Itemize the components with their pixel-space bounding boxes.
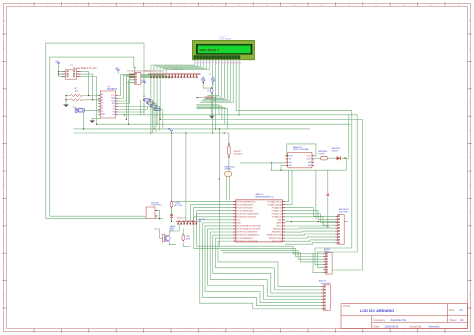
wire LCD pin10 descent xyxy=(206,64,221,97)
wire bus row 5 xyxy=(74,128,311,130)
node RP1 junction xyxy=(203,82,204,83)
svg-text:GN1: GN1 xyxy=(288,162,292,164)
wire U1 RXD xyxy=(191,205,234,222)
power flag 5V on bus xyxy=(168,129,173,133)
connector P2 header female 1x4 xyxy=(129,72,141,84)
svg-text:GN4: GN4 xyxy=(308,165,312,167)
connector J-LCD label xyxy=(144,68,184,72)
wire U1 PD4 xyxy=(194,217,233,249)
wire RN4 right end xyxy=(161,110,163,129)
svg-text:PC1(ADC1): PC1(ADC1) xyxy=(272,212,282,215)
svg-text:A0: A0 xyxy=(101,93,103,96)
wire crystal to U2 pin6 xyxy=(84,109,100,111)
wire backlight cascade 4 to bus xyxy=(197,109,228,129)
display LCD1 16x2 module xyxy=(192,40,254,59)
svg-text:16: 16 xyxy=(239,62,241,64)
wire RN3 right end xyxy=(158,106,160,130)
svg-text:1: 1 xyxy=(196,62,197,64)
svg-text:G: G xyxy=(469,185,471,187)
wire ICSP run 4 xyxy=(223,253,323,262)
wire P2 pin3 down xyxy=(128,80,130,124)
wire U1 AVCC xyxy=(285,225,328,227)
wire U1 ADC1 xyxy=(285,214,335,223)
node I2C bus entry xyxy=(134,67,136,73)
wire R2 right to U2 pin2 xyxy=(82,99,100,101)
resistor R3 label xyxy=(207,90,210,92)
capacitor C-resonator label xyxy=(225,165,235,170)
wire U1 TXD xyxy=(194,208,233,222)
wire U2 GND to ground xyxy=(92,118,100,120)
wire P1 right pin2 xyxy=(81,74,93,100)
svg-text:PC4(ADC4/SDA): PC4(ADC4/SDA) xyxy=(267,203,281,206)
svg-text:(PCINT16/RXD)PD0: (PCINT16/RXD)PD0 xyxy=(237,204,254,206)
wire U2 right pin2 to LCD header pin6 xyxy=(118,76,166,99)
wire LCD pin13 descent xyxy=(202,64,231,101)
wire U1 GND-AREF rail xyxy=(285,221,348,223)
wire U3 top loop xyxy=(287,144,316,156)
wire LCD pin2 to header pin2 xyxy=(154,63,198,78)
wire LCD header pin1 down to bus xyxy=(150,78,152,133)
svg-text:PC5(ADC5/SCL): PC5(ADC5/SCL) xyxy=(268,200,282,203)
wire R7 top xyxy=(183,229,190,247)
resistor RN4 xyxy=(153,108,161,110)
wire ICSP run 1 xyxy=(218,246,323,254)
svg-text:16MHZ: 16MHZ xyxy=(225,169,232,171)
wire RP cluster xyxy=(203,84,213,88)
wire U1 ADC0 xyxy=(285,217,335,225)
wire bus row 3 xyxy=(161,120,362,271)
wire J4 pin8 stub xyxy=(313,253,323,273)
connector P2 label xyxy=(128,69,154,72)
svg-text:PB2(SS/OC1B): PB2(SS/OC1B) xyxy=(269,238,282,240)
wire LCD pin16 to bus row2 xyxy=(239,64,240,116)
wire R1 left to vertical xyxy=(66,96,71,105)
wire Q1 collector xyxy=(169,224,179,235)
connector J2 header 1x7 xyxy=(177,221,198,224)
LED D2 xyxy=(170,207,173,221)
power flag +5V above P2 xyxy=(115,68,120,73)
resonator X1 xyxy=(225,171,232,199)
connector J3 header 8-pin xyxy=(322,285,331,311)
wire D1 to right bus xyxy=(340,115,348,170)
svg-text:PC3(ADC3): PC3(ADC3) xyxy=(272,206,282,209)
wire U1 right pin13 to J1 xyxy=(285,237,335,238)
svg-text:VOUT: VOUT xyxy=(306,159,311,161)
svg-text:P5: P5 xyxy=(113,111,115,113)
wire U1 left pin11 staircase to J3 pin4 xyxy=(210,232,321,296)
wire bus stub down 2 xyxy=(218,129,220,246)
wire U1 left pin13 staircase to J3 pin2 xyxy=(215,238,321,290)
svg-text:GND: GND xyxy=(101,114,106,116)
trimmer RP1 label xyxy=(199,74,212,76)
svg-text:SCL: SCL xyxy=(111,100,115,102)
svg-text:A2: A2 xyxy=(101,99,103,102)
svg-text:SMD: SMD xyxy=(186,238,191,240)
wire bus to reset resistor xyxy=(228,133,230,144)
power flag VCC right xyxy=(327,170,329,227)
svg-text:5V-LED: 5V-LED xyxy=(332,150,339,152)
wire U2 right pin5 to resistor RN4 xyxy=(118,107,151,110)
wire LCD pin4 to header pin4 xyxy=(160,63,204,78)
display LCD1 label xyxy=(220,36,232,40)
svg-text:4.7UH: 4.7UH xyxy=(319,153,325,155)
svg-text:(PCINT14/RESET)PC6: (PCINT14/RESET)PC6 xyxy=(237,201,256,203)
svg-text:A1: A1 xyxy=(101,96,103,99)
svg-text:6: 6 xyxy=(210,62,211,64)
connector J4 header 8-pin xyxy=(323,253,332,275)
svg-text:(PCINT22/OC0A/AIN0)PD6: (PCINT22/OC0A/AIN0)PD6 xyxy=(237,234,260,237)
wire loop net A bottom run to reset connector xyxy=(46,218,163,220)
resistor R4 (zigzag) xyxy=(205,96,217,102)
regulator U3 label xyxy=(293,146,309,151)
wire LCD header pin2 down to bus xyxy=(153,78,155,129)
wire P3 to loops xyxy=(158,211,161,220)
wire RN1 right end xyxy=(151,100,153,133)
svg-text:G: G xyxy=(4,185,6,187)
svg-text:VCC+: VCC+ xyxy=(307,156,312,158)
wire U1 right pin12 to J1 xyxy=(285,234,335,235)
svg-text:12: 12 xyxy=(228,62,230,64)
resistor R6 LED series xyxy=(170,201,173,209)
svg-text:4: 4 xyxy=(205,62,206,64)
wire U2 right pin7 to resistor RN2 xyxy=(118,103,144,112)
wire 5V flag to LED resistor xyxy=(171,133,173,200)
title block xyxy=(341,304,468,329)
node LED junction xyxy=(171,221,172,222)
wire bus row 6 xyxy=(74,132,229,134)
resistor R7 label xyxy=(186,236,191,240)
wire U1 INT0 xyxy=(197,211,233,222)
svg-text:AiventGo SG: AiventGo SG xyxy=(391,318,407,322)
wire LCD pin1 to header pin1 xyxy=(151,63,195,78)
wire RN2 right end xyxy=(154,103,156,132)
node D1 cathode junction xyxy=(344,157,346,159)
svg-text:GND: GND xyxy=(237,223,242,225)
wire LCD pin8 to bus row5 xyxy=(215,64,216,130)
connector J3 label xyxy=(319,280,332,286)
mcu U1 ATMEGA328P xyxy=(233,200,285,243)
node header-bus junctions xyxy=(150,119,160,134)
svg-text:J: J xyxy=(469,267,470,269)
wire U1 left pin7 staircase to J3 pin8 xyxy=(200,220,322,309)
ground at R pair xyxy=(63,105,68,108)
op-amp U2 PCF8574 xyxy=(98,91,118,118)
node bus stub junction xyxy=(185,132,186,222)
wire U1 right pin10 to J1 xyxy=(285,227,335,230)
svg-text:GN3: GN3 xyxy=(308,162,312,164)
svg-text:DUPONT-2: DUPONT-2 xyxy=(151,205,162,207)
wire U1 RESET to LED column xyxy=(172,201,234,203)
wire backlight cascade 3 to bus xyxy=(197,107,225,124)
connector J1 header 10-pin xyxy=(336,215,345,245)
wire U1 SDA up xyxy=(285,170,292,204)
node J2 junctions xyxy=(179,221,194,222)
resistor cluster labels xyxy=(143,96,146,98)
svg-text:(PCINT19/OC2B/INT1)PD3: (PCINT19/OC2B/INT1)PD3 xyxy=(237,213,259,215)
wire LCD pin3 to header pin3 xyxy=(157,63,201,78)
svg-text:P4: P4 xyxy=(113,114,115,116)
svg-text:PB4(MISO): PB4(MISO) xyxy=(272,232,282,234)
wire LCD header pin4 down to bus xyxy=(159,78,161,119)
svg-text:6x1M-2.54: 6x1M-2.54 xyxy=(177,218,187,220)
svg-text:P1: P1 xyxy=(101,105,103,107)
resistor RN2 xyxy=(146,102,154,104)
svg-text:14: 14 xyxy=(234,62,236,64)
svg-text:Header-Male-2.54_2x3: Header-Male-2.54_2x3 xyxy=(73,67,97,70)
svg-text:8: 8 xyxy=(216,62,217,64)
wire U2 right pin4 to LCD header pin8 xyxy=(118,77,173,103)
node U3 VOUT junction xyxy=(286,155,287,156)
mcu U1 label xyxy=(256,193,274,199)
wire crystal junction down xyxy=(83,113,85,129)
wire U1 right pin15 to J1 xyxy=(285,243,335,244)
svg-text:TITLE:: TITLE: xyxy=(343,305,351,308)
wire LCD pin12 descent xyxy=(203,64,227,100)
resistor R2 (zigzag) xyxy=(71,99,83,101)
resistor R6 label xyxy=(175,203,183,207)
svg-text:LCD I2C ARDUINO: LCD I2C ARDUINO xyxy=(360,308,394,313)
svg-text:(PCINT23/AIN1)PD7: (PCINT23/AIN1)PD7 xyxy=(237,237,254,240)
wire loop net B bottom run to reset connector xyxy=(50,215,146,217)
wire U2 right pin3 to LCD header pin7 xyxy=(118,77,170,101)
svg-text:(PCINT0/CLKO/ICP1)PB0: (PCINT0/CLKO/ICP1)PB0 xyxy=(237,241,258,243)
svg-text:PC0(ADC0): PC0(ADC0) xyxy=(272,216,282,219)
svg-text:Rev:: Rev: xyxy=(449,308,455,312)
regulator U3 AMS1117 xyxy=(286,152,315,168)
svg-text:P3: P3 xyxy=(101,111,103,113)
power flag +5V right of P2 xyxy=(141,80,146,82)
svg-text:(PCINT21/OC0B/T1)PD5: (PCINT21/OC0B/T1)PD5 xyxy=(237,232,258,234)
wire ICSP run 2 xyxy=(218,248,323,256)
wire U1 left pin12 staircase to J3 pin3 xyxy=(213,235,322,293)
svg-text:P7: P7 xyxy=(113,106,115,108)
transistor Q1 xyxy=(162,234,170,242)
wire U2 right pin6 to resistor RN3 xyxy=(118,106,148,109)
wire U1 right pin11 to J1 xyxy=(285,230,335,233)
wire U2 right pin1 to LCD header pin5 xyxy=(118,75,163,96)
wire bus row 1 xyxy=(236,64,352,265)
svg-text:P6: P6 xyxy=(113,109,115,111)
wire R4 to ground xyxy=(211,98,213,117)
wire backlight cascade 1 to bus xyxy=(197,105,220,115)
resistor RN1 xyxy=(143,99,151,101)
wire LCD pin11 descent xyxy=(205,64,225,99)
svg-text:P0: P0 xyxy=(101,103,103,105)
resistor R1 label xyxy=(75,88,80,92)
trimmer RP1 xyxy=(202,76,205,84)
inductor L1 label xyxy=(319,150,329,155)
connector P1 header male 2x3 xyxy=(62,70,81,79)
node P1 pin1 junction xyxy=(58,71,59,75)
header P1 label xyxy=(70,65,97,70)
wire U1 right pin14 to J1 xyxy=(285,240,335,241)
connector P3 reset 2-pin xyxy=(146,207,157,219)
svg-text:8x1F-H8.5: 8x1F-H8.5 xyxy=(339,212,349,214)
svg-text:Company:: Company: xyxy=(374,318,387,322)
svg-text:PB5(SCK): PB5(SCK) xyxy=(273,229,282,231)
node bus stub 2 junctions xyxy=(219,128,220,179)
wire loop net A (outer rectangle route) xyxy=(46,43,144,219)
svg-text:2: 2 xyxy=(199,62,200,64)
svg-text:3: 3 xyxy=(202,62,203,64)
svg-text:VCC: VCC xyxy=(237,220,242,222)
resistor R5 reset pullup xyxy=(228,144,243,158)
svg-text:1/1: 1/1 xyxy=(460,318,464,322)
transistor Q1 label xyxy=(170,226,176,232)
wire LCD pin14 descent xyxy=(200,64,233,103)
node R4 junction xyxy=(211,97,213,99)
svg-text:10K-SMD: 10K-SMD xyxy=(234,154,243,156)
svg-text:1.0: 1.0 xyxy=(459,308,463,312)
svg-text:15: 15 xyxy=(237,62,239,64)
wire LCD header pin3 down to bus xyxy=(156,78,158,124)
wire LCD pin7 to bus row6 xyxy=(212,64,213,134)
wire U1 PD3 xyxy=(197,214,234,246)
svg-text:11: 11 xyxy=(225,62,227,64)
node AREF junctions xyxy=(291,221,329,227)
ground below U2 xyxy=(90,120,95,123)
wire ICSP run 3 xyxy=(221,251,324,260)
wire backlight cascade 2 to bus xyxy=(197,106,222,119)
wire LCD pin5 to header pin5 xyxy=(163,63,207,78)
svg-text:Date:: Date: xyxy=(374,325,381,329)
wire U1 SCL up xyxy=(285,170,289,201)
svg-text:ACTIVE: ACTIVE xyxy=(175,204,183,207)
svg-text:AiventGo: AiventGo xyxy=(429,325,441,329)
connector J4 label xyxy=(324,248,331,253)
svg-text:7: 7 xyxy=(213,62,214,64)
wire U1 left pin9 staircase to J3 pin6 xyxy=(205,226,322,303)
svg-text:PC2(ADC2): PC2(ADC2) xyxy=(272,209,282,212)
svg-text:(PCINT17/TXD)PD1: (PCINT17/TXD)PD1 xyxy=(237,207,254,209)
svg-text:ATMEGA328P-PU: ATMEGA328P-PU xyxy=(256,195,274,198)
wire U3 output down to J1 xyxy=(315,170,317,219)
LED D1 label xyxy=(332,147,342,152)
svg-text:GN2: GN2 xyxy=(288,165,292,167)
wire U1 ADC3 xyxy=(285,208,335,217)
crystal Y1 label xyxy=(73,107,76,109)
svg-text:VOUT: VOUT xyxy=(288,156,293,158)
wire U1 left pin14 staircase to J3 pin1 xyxy=(218,241,322,287)
power flag +5V near P1 xyxy=(55,61,60,71)
wire P1 right pin1 xyxy=(81,72,89,96)
wire LCD pin6 to header pin6 xyxy=(166,63,209,78)
svg-text:GND: GND xyxy=(277,220,282,222)
svg-text:J: J xyxy=(4,267,5,269)
node R1 left junction xyxy=(65,95,66,100)
inductor L1 xyxy=(314,157,336,160)
wire U1 left pin10 staircase to J3 pin5 xyxy=(208,229,322,299)
wire U3 GND stub xyxy=(280,165,285,170)
node R1 right junction xyxy=(88,95,93,100)
svg-text:2020-09-26: 2020-09-26 xyxy=(385,325,399,329)
connector P3 label xyxy=(151,202,162,206)
op-amp U2 label xyxy=(107,87,118,92)
wire P1 right pin3 xyxy=(81,77,97,125)
svg-text:(PCINT7/XTAL2/TOSC2)PB7: (PCINT7/XTAL2/TOSC2)PB7 xyxy=(237,228,261,231)
wire bus row 2 xyxy=(124,115,357,267)
wire U1 ADC2 xyxy=(285,211,335,220)
wire U3 VIN input xyxy=(240,162,286,170)
svg-text:(PCINT6/XTAL1/TOSC1)PB6: (PCINT6/XTAL1/TOSC1)PB6 xyxy=(237,225,261,228)
wire R4 left xyxy=(196,93,212,98)
resistor R1 (zigzag) xyxy=(71,94,83,96)
wire U2 right pin8 to resistor RN1 xyxy=(118,100,141,115)
wire U3 bottom rail xyxy=(270,169,346,171)
resistor RN3 xyxy=(150,105,158,107)
svg-text:Hello World !!: Hello World !! xyxy=(200,48,219,52)
wire P2 pin4 down xyxy=(126,83,128,120)
svg-text:Sheet:: Sheet: xyxy=(449,318,457,322)
svg-text:5: 5 xyxy=(207,62,208,64)
wire loop net B (inner rectangle route) xyxy=(50,57,134,216)
wire bus row 4 xyxy=(97,123,351,125)
svg-text:10: 10 xyxy=(222,62,224,64)
svg-text:AVCC: AVCC xyxy=(277,225,283,228)
LED D1 xyxy=(337,156,341,160)
svg-text:(PCINT18/INT0)PD2: (PCINT18/INT0)PD2 xyxy=(237,210,254,212)
wire reset resistor down xyxy=(228,158,230,172)
trimmer RP2 xyxy=(211,76,214,84)
wire U1 left pin8 staircase to J3 pin7 xyxy=(202,223,321,306)
display LCD1 pins 1-16 xyxy=(195,60,241,65)
connector J1 label xyxy=(339,208,349,213)
svg-text:13: 13 xyxy=(231,62,233,64)
connector J2 label xyxy=(177,218,206,223)
resistor R7 xyxy=(182,234,185,242)
wire Q1 emitter xyxy=(169,242,176,245)
wire LCD pin9 descent xyxy=(208,64,219,96)
wire 5V to P1 pins xyxy=(59,72,66,77)
crystal Y1 xyxy=(75,108,85,113)
svg-text:P2: P2 xyxy=(101,108,103,110)
ground below R4 xyxy=(209,116,214,119)
wire Q1 base xyxy=(154,229,162,238)
svg-text:(PCINT20/XCK/T0)PD4: (PCINT20/XCK/T0)PD4 xyxy=(237,217,256,219)
node bus junctions xyxy=(83,114,225,133)
connector J-LCD header 1x16 xyxy=(149,73,200,78)
svg-text:LM1117-800MA: LM1117-800MA xyxy=(293,148,309,151)
svg-text:PB3(MOSI/OC2A): PB3(MOSI/OC2A) xyxy=(267,234,282,237)
wire bus stub down xyxy=(185,133,187,221)
svg-text:Drawn By:: Drawn By: xyxy=(410,325,423,329)
svg-text:9: 9 xyxy=(219,62,220,64)
resistor R3 vertical xyxy=(211,87,213,94)
wire R1 right to U2 pin1 xyxy=(82,95,100,97)
svg-text:PB1(OC1A): PB1(OC1A) xyxy=(272,240,282,243)
